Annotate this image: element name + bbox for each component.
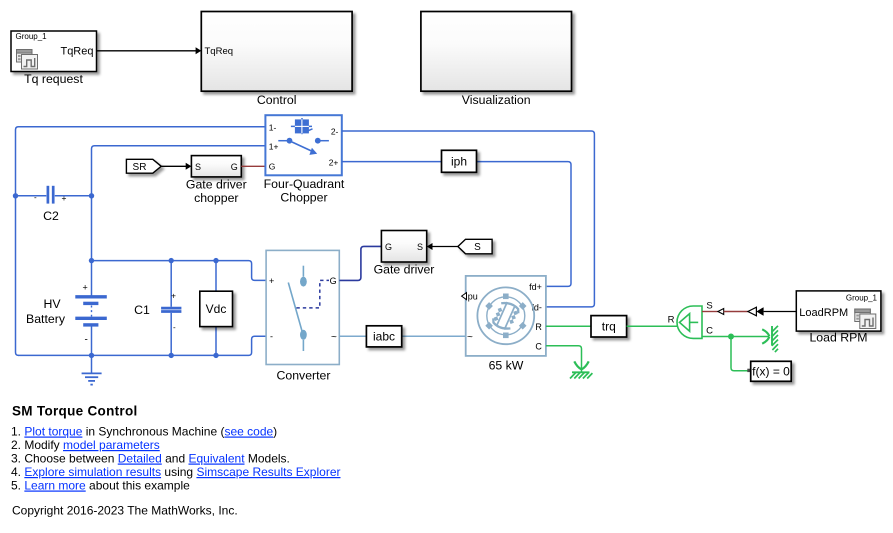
subsystem Visualization	[421, 12, 572, 92]
junction node battery top	[89, 258, 94, 263]
svg-text:2+: 2+	[329, 157, 339, 167]
torque sensor trq	[591, 316, 627, 337]
svg-text:65 kW: 65 kW	[489, 359, 524, 373]
wire chopper 2+ to iph	[342, 161, 442, 163]
wire chopper 2- to machine fd-	[342, 131, 595, 307]
icon converter switch	[288, 266, 307, 351]
svg-text:-: -	[173, 323, 176, 332]
svg-text:G: G	[330, 276, 337, 286]
svg-text:trq: trq	[602, 320, 616, 334]
svg-text:Gate driver: Gate driver	[186, 178, 247, 192]
label Four-Quadrant Chopper	[264, 177, 345, 204]
svg-text:~: ~	[467, 332, 473, 343]
svg-text:chopper: chopper	[194, 191, 238, 205]
svg-text:LoadRPM: LoadRPM	[799, 307, 848, 319]
battery HV Battery	[75, 283, 107, 346]
svg-text:1+: 1+	[269, 141, 279, 151]
svg-text:HV: HV	[43, 297, 61, 311]
capacitor C1	[161, 290, 181, 332]
svg-text:fd+: fd+	[529, 282, 542, 292]
svg-text:~: ~	[331, 332, 337, 343]
signal builder block Tq request	[11, 31, 97, 72]
from tag SR	[126, 159, 161, 173]
mechanical rotational reference below machine	[570, 361, 592, 378]
svg-text:TqReq: TqReq	[205, 46, 234, 57]
svg-text:Gate driver: Gate driver	[374, 262, 435, 276]
wire gate driver chopper G to chopper G (physical signal)	[241, 165, 265, 167]
port marker pu unconnected	[462, 293, 467, 300]
junction node C1 bottom	[169, 353, 174, 358]
wire chopper 1+ to battery rail	[92, 146, 266, 261]
svg-text:+: +	[171, 290, 176, 300]
svg-text:S: S	[706, 301, 712, 312]
svg-text:SR: SR	[133, 162, 147, 173]
svg-text:Load RPM: Load RPM	[809, 330, 867, 344]
svg-text:G: G	[231, 162, 238, 172]
signal builder icon Load RPM	[855, 309, 876, 329]
svg-text:S: S	[474, 242, 481, 253]
svg-text:G: G	[269, 162, 276, 172]
signal builder block Load RPM	[796, 291, 881, 331]
mechanical rotational reference clamp right	[762, 326, 778, 352]
block Four-Quadrant Chopper	[265, 115, 341, 175]
wire bottom bus to converter -	[18, 336, 266, 355]
block Gate driver chopper	[191, 156, 241, 177]
icon chopper transistor bridge	[291, 118, 313, 134]
svg-text:Control: Control	[257, 93, 297, 107]
svg-text:Copyright 2016-2023 The MathWo: Copyright 2016-2023 The MathWorks, Inc.	[12, 504, 238, 518]
svg-text:2-: 2-	[331, 127, 339, 137]
svg-text:-: -	[85, 335, 88, 346]
svg-text:G: G	[385, 242, 392, 252]
wire source C to clamp	[702, 336, 769, 338]
wire C2 row	[16, 195, 92, 197]
capacitor C1 column wires	[170, 261, 172, 356]
svg-text:Visualization: Visualization	[462, 93, 531, 107]
capacitor C2	[34, 186, 67, 204]
voltage sensor Vdc	[200, 291, 233, 326]
svg-text:R: R	[668, 315, 675, 326]
svg-text:S: S	[417, 242, 423, 252]
wire top bus to converter +	[92, 261, 267, 281]
subsystem Control	[201, 12, 352, 92]
block Converter	[266, 250, 339, 364]
svg-text:-: -	[270, 332, 273, 342]
battery HV column wires	[91, 261, 93, 356]
svg-text:3. Choose between Detailed and: 3. Choose between Detailed and Equivalen…	[11, 452, 290, 466]
svg-text:2. Modify model parameters: 2. Modify model parameters	[11, 438, 160, 452]
junction node C2 right	[89, 193, 94, 198]
wire trq to source R	[627, 325, 678, 327]
wire iph to machine fd+	[477, 162, 572, 287]
junction node Vdc bottom	[213, 353, 218, 358]
port square solver	[747, 369, 750, 372]
svg-text:S: S	[195, 162, 201, 172]
svg-text:Chopper: Chopper	[280, 191, 327, 205]
svg-text:Converter: Converter	[277, 369, 331, 383]
annotation list	[11, 425, 341, 493]
svg-text:R: R	[535, 322, 542, 332]
svg-text:iph: iph	[451, 155, 467, 169]
wire machine C to rotational reference	[546, 346, 582, 362]
icon machine rotor	[491, 300, 521, 333]
label HV Battery	[26, 297, 66, 326]
svg-text:Group_1: Group_1	[16, 32, 48, 41]
svg-text:-: -	[34, 193, 37, 202]
junction node C1 top	[169, 258, 174, 263]
wire S tag to gate driver S	[427, 243, 458, 250]
wire converter ~ to iabc	[339, 335, 366, 337]
wire source C to solver block	[731, 337, 750, 371]
electrical ground below battery	[82, 355, 102, 384]
from tag S	[458, 239, 492, 254]
svg-text:TqReq: TqReq	[60, 46, 93, 58]
svg-text:Four-Quadrant: Four-Quadrant	[264, 177, 345, 191]
icon machine stator	[477, 287, 534, 344]
svg-text:Tq request: Tq request	[24, 72, 83, 86]
current sensor iph	[442, 150, 477, 172]
signal builder icon Tq request	[17, 50, 38, 70]
svg-text:iabc: iabc	[373, 329, 395, 343]
voltage sensor Vdc column wire	[215, 261, 217, 356]
wire SR to gate driver chopper	[161, 163, 191, 170]
icon converter gate dashed line	[296, 280, 329, 308]
block Gate driver	[381, 231, 426, 263]
svg-text:Battery: Battery	[26, 312, 66, 326]
icon chopper switch	[278, 138, 329, 155]
svg-text:C: C	[706, 326, 713, 337]
junction node source C	[728, 334, 734, 340]
svg-text:C1: C1	[134, 303, 150, 317]
svg-text:C2: C2	[43, 209, 59, 223]
junction node C2 left	[13, 193, 18, 198]
svg-text:5. Learn more about this examp: 5. Learn more about this example	[11, 479, 190, 493]
wire iabc to machine ~	[402, 335, 466, 337]
solver configuration f(x) = 0	[751, 361, 792, 381]
label Gate driver chopper	[186, 178, 247, 205]
current sensor iabc	[366, 326, 401, 347]
svg-text:+: +	[269, 276, 274, 286]
svg-text:+: +	[83, 283, 88, 293]
junction node battery bottom	[89, 353, 94, 358]
svg-text:pu: pu	[468, 292, 478, 302]
junction node Vdc top	[213, 258, 218, 263]
svg-text:f(x) = 0: f(x) = 0	[752, 365, 790, 379]
source Ideal Angular Velocity Source	[668, 301, 714, 339]
wire TqReq signal	[97, 47, 202, 54]
svg-text:1-: 1-	[269, 122, 277, 132]
svg-text:Vdc: Vdc	[206, 302, 227, 316]
wire source S physical signal with converters	[702, 307, 796, 316]
wire chopper 1- to left rail	[16, 127, 266, 356]
wire machine R to trq	[546, 325, 591, 327]
svg-text:+: +	[62, 193, 67, 203]
svg-text:Group_1: Group_1	[846, 294, 878, 303]
block Synchronous Machine 65 kW	[466, 276, 546, 356]
svg-text:1. Plot torque in Synchronous: 1. Plot torque in Synchronous Machine (s…	[11, 425, 277, 439]
svg-text:C: C	[535, 341, 542, 351]
wire converter G to gate driver	[339, 246, 381, 280]
svg-text:4. Explore simulation results: 4. Explore simulation results using Sims…	[11, 465, 341, 479]
svg-text:SM Torque Control: SM Torque Control	[12, 403, 138, 418]
